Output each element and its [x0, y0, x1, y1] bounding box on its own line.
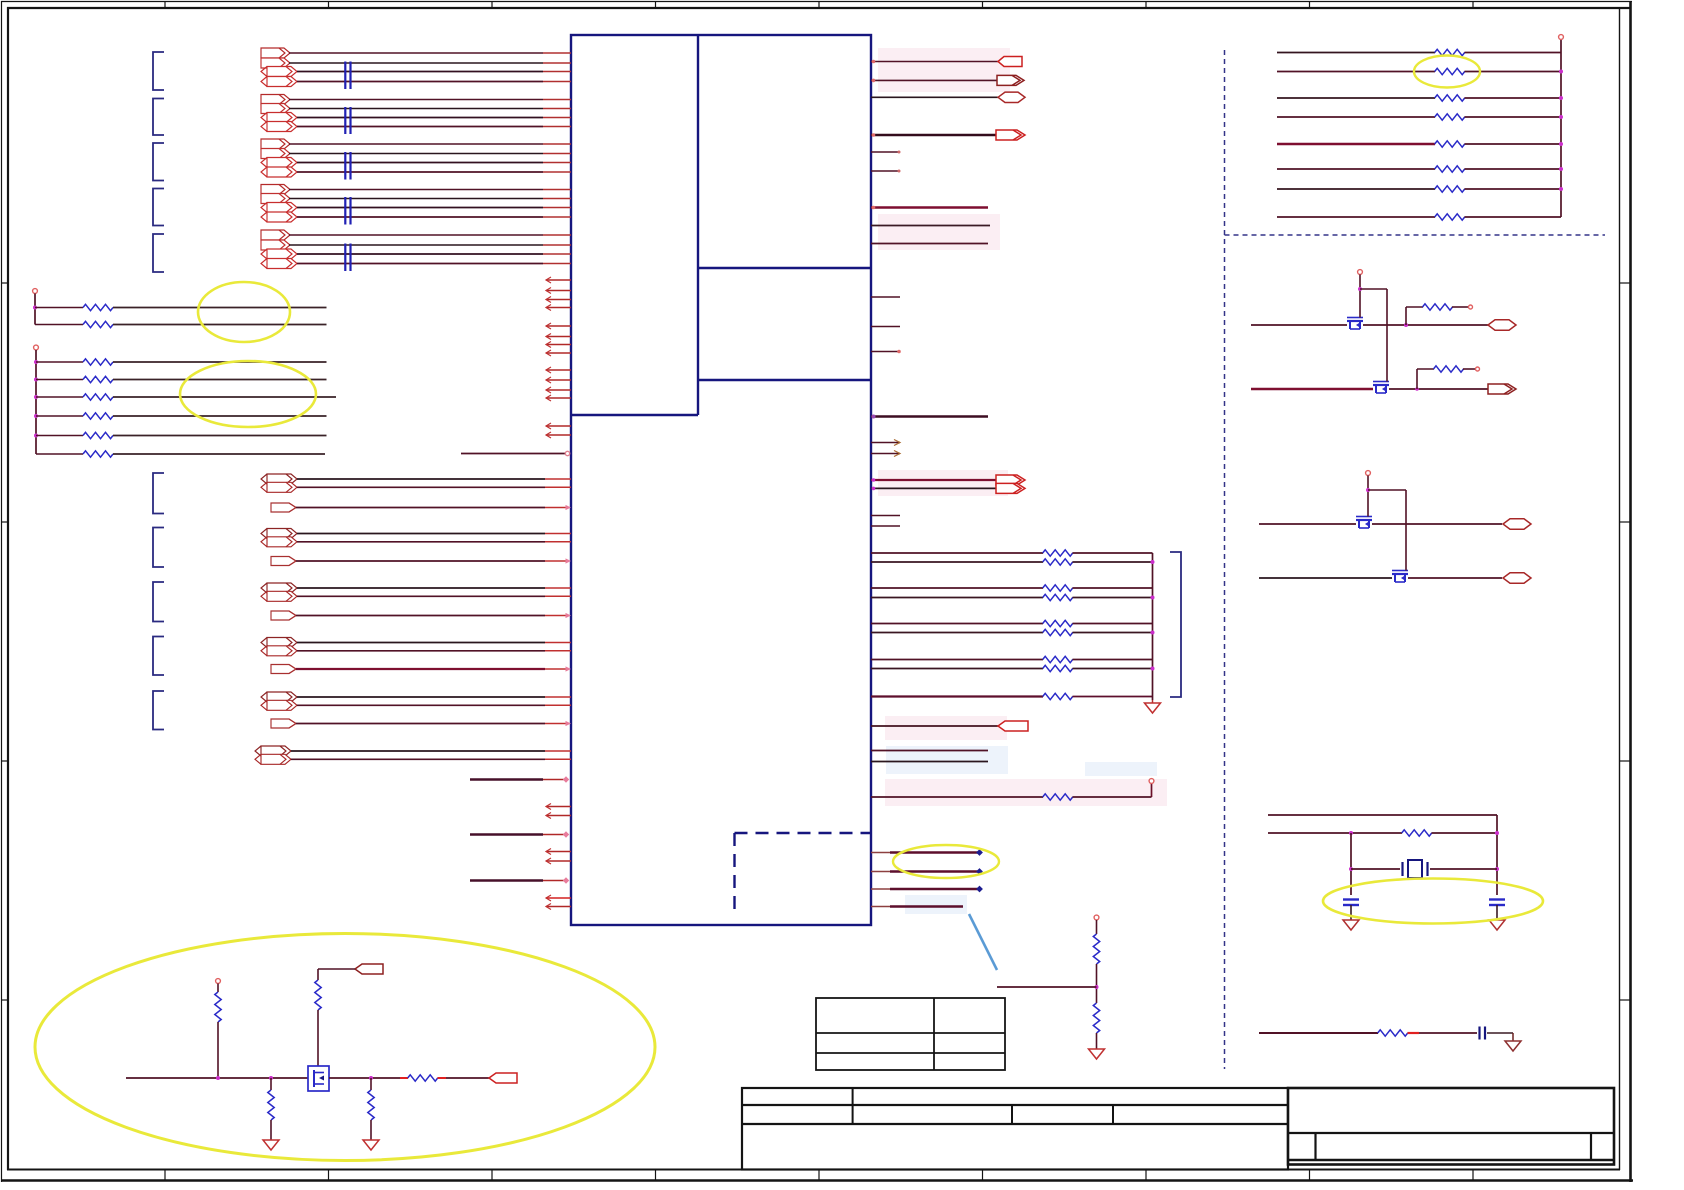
wire group1 net1 — [289, 52, 543, 54]
connector PL4a — [261, 638, 297, 648]
pin stub pair5 — [545, 697, 571, 705]
junction X1 — [1349, 831, 1353, 835]
capacitor CRC — [1480, 1027, 1486, 1040]
wire group4 net1 — [289, 189, 543, 191]
wire pair3 net1 — [297, 587, 545, 589]
pin dot net61 — [872, 60, 876, 64]
termination bus junctions — [1151, 560, 1155, 671]
wire B3 left — [36, 396, 83, 398]
wire group1 net2 — [289, 62, 543, 64]
highlight ellipse EE — [35, 934, 655, 1161]
terminal V1 — [1358, 270, 1363, 275]
port OUT3 — [998, 92, 1025, 102]
bracket group1 — [153, 52, 164, 90]
termination resistor RT6 — [1043, 629, 1073, 635]
wire TR3 left — [1277, 97, 1435, 99]
wire TR1 right — [1465, 52, 1562, 54]
wire TR6 left — [1277, 168, 1435, 170]
wire single2 — [296, 560, 545, 562]
wire term net6 left — [871, 632, 1043, 634]
wire group2 net2 — [289, 108, 543, 110]
bus B vertical — [35, 350, 37, 454]
transistor Q1 — [1347, 318, 1363, 330]
terminal M1 — [1469, 305, 1473, 309]
wire RQ4 bottom — [370, 1120, 372, 1140]
resistor RQ2 — [315, 980, 321, 1010]
wire term net2 left — [871, 561, 1043, 563]
wire RP1-RP2 — [1096, 964, 1098, 1003]
wire group5 net4 — [297, 263, 543, 265]
wire out net135 — [871, 134, 996, 137]
termination resistor RT7 — [1043, 656, 1073, 662]
bracket group4 — [153, 189, 164, 226]
pin dots pair — [872, 478, 876, 490]
wire RP2 down — [1096, 1033, 1098, 1049]
junction B3 — [34, 395, 38, 399]
terminal TTR — [1559, 35, 1564, 40]
terminal net797 — [1149, 779, 1154, 784]
highlight ellipse EA — [198, 282, 290, 342]
wire botleft3 — [470, 879, 543, 881]
wire pair5 net2 — [297, 704, 545, 706]
wire out net416 — [871, 415, 988, 417]
bracket group5 — [153, 234, 164, 272]
wire B3 right — [113, 396, 336, 398]
wire V1 down — [1359, 275, 1361, 317]
ground GX2 — [1489, 920, 1505, 930]
capacitor CX1 — [1343, 900, 1359, 921]
connector P13 — [261, 185, 290, 195]
wire term net1 right — [1073, 552, 1153, 554]
crystal Y1 — [1403, 860, 1428, 878]
wire Q5 main right — [329, 1077, 400, 1079]
transistor Q2 — [1373, 382, 1389, 394]
revision table — [816, 998, 1005, 1070]
wire pair2 net1 — [297, 533, 545, 535]
wire M4 in — [1259, 577, 1392, 579]
port OUT1 — [998, 57, 1022, 67]
coupling capacitors C1 C2 — [344, 62, 351, 90]
termination resistor RT3 — [1043, 585, 1073, 591]
pin stub pair6 — [545, 751, 571, 759]
connector PL6a — [255, 746, 291, 756]
wire term net5 left — [871, 623, 1043, 625]
wire out pair482 — [871, 479, 996, 481]
pin stub single2 — [545, 560, 566, 562]
resistor RR6 — [1435, 166, 1465, 172]
resistor RA2 — [83, 321, 113, 327]
wire TR2 right — [1465, 71, 1562, 73]
wire B2 right — [113, 379, 327, 381]
wire out net225 — [871, 225, 990, 227]
strap diamond 1 — [976, 849, 983, 856]
wire RM1 out — [1452, 306, 1468, 308]
bracket group3 — [153, 143, 164, 181]
strap wire 1 — [871, 852, 979, 854]
pin arrow single4 — [566, 666, 572, 671]
wire B4 right — [113, 415, 327, 417]
bracket termination — [1170, 552, 1181, 697]
termination resistor RT8 — [1043, 665, 1073, 671]
connector P7 — [261, 113, 297, 123]
pin stub single1 — [545, 507, 566, 509]
junction M1 — [1404, 323, 1408, 327]
wire X2 left — [1268, 832, 1402, 834]
wire B6 left — [36, 453, 83, 455]
connector PL1a — [261, 474, 297, 484]
pin dot net135 — [872, 133, 876, 137]
connector PL3a — [261, 583, 297, 593]
connector PS4 — [271, 665, 296, 674]
wire RC mid — [1419, 1032, 1477, 1034]
wire term net3 left — [871, 587, 1043, 589]
wire X2 right — [1432, 832, 1498, 834]
port OUTP1 — [996, 475, 1025, 485]
dashed partition vertical — [1224, 50, 1226, 1069]
wire out net80 — [871, 79, 998, 81]
highlight ellipse EC — [893, 845, 999, 878]
wire B2 left — [36, 379, 83, 381]
strap wire 4 — [871, 906, 963, 908]
wire pair4 net2 — [297, 650, 545, 652]
connector PL6b — [255, 754, 291, 764]
connector P19 — [261, 249, 297, 259]
wire RC red lead — [1408, 1032, 1420, 1034]
wire to PQ2 — [446, 1077, 489, 1079]
wire RQ5 red lead1 — [400, 1077, 408, 1079]
resistor RQ4 — [368, 1090, 374, 1120]
connector P20 — [261, 259, 297, 269]
terminal M2 — [1476, 367, 1480, 371]
wire group5 net2 — [289, 244, 543, 246]
resistor RR5 — [1435, 141, 1465, 147]
wire RC out — [1487, 1032, 1513, 1034]
junction M2 — [1415, 387, 1419, 391]
termination resistor RT4 — [1043, 594, 1073, 600]
wire TR5 left — [1277, 143, 1435, 145]
wire X left vert — [1350, 833, 1352, 895]
ground GP — [1089, 1049, 1105, 1059]
wire V2 down — [1367, 476, 1369, 516]
junction P — [1095, 985, 1099, 989]
junction Q1b — [269, 1076, 273, 1080]
port OUT2 — [997, 75, 1024, 85]
pin stub pair1 — [545, 479, 571, 487]
connector PL4b — [261, 646, 297, 656]
terminal TQ — [216, 979, 221, 984]
pin stub pair4 — [545, 643, 571, 651]
ground GQ1 — [263, 1140, 279, 1150]
strap wire 2 — [871, 871, 979, 873]
resistor RB4 — [83, 413, 113, 419]
wire single4 — [296, 668, 545, 670]
connector P2 — [261, 58, 290, 68]
connector P12 — [261, 167, 297, 177]
pin stub pair3 — [545, 588, 571, 596]
junction V2 — [1366, 488, 1370, 492]
wire TR6 right — [1465, 168, 1562, 170]
resistor RR7 — [1435, 186, 1465, 192]
termination resistor RT1 — [1043, 550, 1073, 556]
strap wire 3 — [871, 888, 979, 890]
resistor RB6 — [83, 451, 113, 457]
connector P5 — [261, 95, 290, 105]
pin stub single4 — [545, 668, 566, 670]
pin dot botleft1 — [563, 776, 569, 782]
connector PS5 — [271, 719, 296, 728]
connector PL3b — [261, 591, 297, 601]
wire term net4 right — [1073, 597, 1153, 599]
coupling capacitors C9 C10 — [344, 244, 351, 272]
branch M1 up — [1406, 307, 1423, 325]
IC U1 outline — [571, 35, 871, 925]
coupling capacitors C3 C4 — [344, 107, 351, 134]
termination resistor RT5 — [1043, 620, 1073, 626]
wire B1 left — [36, 361, 83, 363]
resistor RQ3 — [268, 1090, 274, 1120]
U1 right stubs 515/526 — [871, 516, 900, 527]
resistor RR8 — [1435, 214, 1465, 220]
wire B6 right — [113, 453, 325, 455]
resistor RR1 — [1435, 49, 1465, 55]
connector PL5a — [261, 692, 297, 702]
connector PL2a — [261, 529, 297, 539]
port LS1 — [1488, 320, 1516, 330]
wire group4 net4 — [297, 216, 543, 218]
resistor RQ5 — [408, 1075, 438, 1081]
wire RQ3 top — [270, 1078, 272, 1090]
U1 right stubs 297-351 — [871, 297, 901, 353]
port LS4 — [1503, 573, 1531, 583]
connector P16 — [261, 212, 297, 222]
junction B4 — [34, 414, 38, 418]
title block left section — [742, 1088, 1614, 1170]
wire group5 net3 — [297, 253, 543, 255]
wire TR3 right — [1465, 97, 1562, 99]
pin arrow single1 — [566, 505, 572, 510]
net stub terminal TA — [33, 289, 38, 294]
pin dot net80 — [872, 79, 876, 83]
wire RQ4 top — [370, 1078, 372, 1090]
bracket lower5 — [153, 691, 164, 730]
junction A1 — [33, 306, 37, 310]
connector PL2b — [261, 537, 297, 547]
wire RQ1 top — [217, 984, 219, 993]
connector P18 — [261, 240, 290, 250]
resistor RB1 — [83, 359, 113, 365]
terminal V2 — [1366, 471, 1371, 476]
connector P1 — [261, 48, 290, 58]
resistor RQ1 — [215, 992, 221, 1022]
wire B5 left — [36, 435, 83, 437]
wire TR8 left — [1277, 216, 1435, 218]
transistor Q3 — [1356, 517, 1372, 529]
pin stub botleft2 — [543, 834, 566, 836]
wire Q5 main left — [126, 1077, 308, 1079]
wire B1 right — [113, 361, 327, 363]
capacitor CX2 — [1489, 900, 1505, 921]
resistor RR4 — [1435, 114, 1465, 120]
wire out net797 left — [871, 796, 1043, 798]
wire V1 branch — [1360, 289, 1387, 380]
bracket lower1 — [153, 473, 164, 514]
callout line — [969, 914, 997, 970]
termination bus vertical — [1152, 553, 1154, 700]
connector PL5b — [261, 700, 297, 710]
port OUT4 — [996, 130, 1025, 140]
title block right section — [1288, 1088, 1614, 1165]
wire RC in — [1259, 1032, 1378, 1034]
terminal TP — [1094, 915, 1099, 920]
connector P9 — [261, 139, 290, 149]
highlight ellipse EX — [1323, 879, 1543, 924]
wire pair2 net2 — [297, 541, 545, 543]
ground GT1 — [1145, 700, 1161, 713]
wire B4 left — [36, 415, 83, 417]
wire M1 out — [1363, 324, 1489, 326]
wire out net797 right — [1073, 796, 1152, 798]
wire group3 net4 — [297, 171, 543, 173]
wire term net1 left — [871, 552, 1043, 554]
wire pair3 net2 — [297, 595, 545, 597]
pin arrow single3 — [566, 613, 572, 618]
wire pair4 net1 — [297, 642, 545, 644]
pin dot net207 — [872, 206, 876, 210]
port LS3 — [1503, 519, 1531, 529]
wire TR4 left — [1277, 116, 1435, 118]
connector P10 — [261, 149, 290, 159]
wire out net750 — [871, 750, 988, 752]
junction Q1a — [216, 1076, 220, 1080]
resistor RRC — [1378, 1030, 1408, 1036]
wire term net8 left — [871, 668, 1043, 670]
wire M2 in — [1251, 388, 1373, 390]
wire single3 — [296, 615, 545, 617]
wire TR7 right — [1465, 188, 1562, 190]
resistor RB2 — [83, 376, 113, 382]
wire RQ2 bottom — [317, 1010, 319, 1066]
wire TR7 left — [1277, 188, 1435, 190]
strap diamond 3 — [976, 886, 983, 893]
wire botleft1 — [470, 778, 543, 780]
ground GX1 — [1343, 920, 1359, 930]
wire V2 branch — [1368, 490, 1406, 569]
port PQ2 — [489, 1073, 517, 1083]
bracket lower3 — [153, 582, 164, 622]
strap diamond 2 — [976, 868, 983, 875]
pin dot net416 — [872, 415, 876, 419]
wire group1 net3 — [297, 71, 543, 73]
wire out net61 — [871, 61, 998, 63]
ground GQ2 — [363, 1140, 379, 1150]
wire A1 right — [113, 307, 327, 309]
wire group2 net1 — [289, 99, 543, 101]
terminal net453 — [565, 451, 569, 455]
wire group3 net1 — [289, 143, 543, 145]
wire TR2 left — [1277, 71, 1435, 73]
junction B2 — [34, 378, 38, 382]
connector P6 — [261, 104, 290, 114]
dashed partition horizontal — [1225, 234, 1606, 236]
connector PS3 — [271, 611, 296, 620]
top-right junctions — [1559, 70, 1563, 192]
wire A2 right — [113, 324, 327, 326]
selection highlight bands — [878, 48, 1167, 914]
U1 bottom-left stub pins — [546, 804, 571, 910]
wire M3 out — [1372, 523, 1502, 525]
resistor RR2 — [1435, 68, 1465, 74]
resistor RB3 — [83, 394, 113, 400]
connector P17 — [261, 230, 290, 240]
wire term net7 left — [871, 659, 1043, 661]
port LS2 — [1488, 384, 1516, 394]
wire group4 net3 — [297, 207, 543, 209]
highlight ellipse ED — [1414, 56, 1480, 88]
branch M2 up — [1417, 369, 1434, 389]
pin stubs group2 — [543, 100, 571, 127]
pin dot botleft3 — [563, 877, 569, 883]
transistor Q5 — [308, 1066, 329, 1091]
U1 right stubs 444/453 — [871, 440, 900, 457]
junction X4 — [1495, 867, 1499, 871]
junction B5 — [34, 434, 38, 438]
wire RM2 out — [1463, 368, 1475, 370]
wire out net761 — [871, 761, 988, 763]
transistor Q4 — [1392, 571, 1408, 583]
termination resistor RT9 — [1043, 693, 1073, 699]
top-right bus vertical — [1560, 40, 1562, 218]
wire P left — [997, 986, 1097, 988]
pin stubs group3 — [543, 144, 571, 172]
pin stubs group5 — [543, 235, 571, 264]
junction B1 — [34, 360, 38, 364]
connector PS2 — [271, 557, 296, 566]
wire M1 in — [1251, 324, 1347, 326]
pin arrow single5 — [566, 721, 572, 726]
net stub terminal TB — [34, 345, 39, 350]
connector PS1 — [271, 503, 296, 512]
resistor RP1 — [1093, 934, 1099, 964]
bracket group2 — [153, 99, 164, 136]
wire TR4 right — [1465, 116, 1562, 118]
dashed option box on U1 — [735, 833, 872, 917]
wire term net5 right — [1073, 623, 1153, 625]
wire group4 net2 — [289, 198, 543, 200]
wire pair1 net2 — [297, 486, 545, 488]
connector P15 — [261, 203, 297, 213]
wire group2 net3 — [297, 117, 543, 119]
wire TR8 right — [1465, 216, 1562, 218]
wire X1 top — [1268, 815, 1497, 895]
wire pair5 net1 — [297, 696, 545, 698]
wire pair6 net2 — [291, 758, 545, 760]
pin arrow single2 — [566, 558, 572, 563]
U1 right stubs 152/171 — [871, 151, 901, 173]
wire term net4 left — [871, 597, 1043, 599]
wire A2 left — [35, 324, 83, 326]
resistor RP2 — [1093, 1003, 1099, 1033]
wire out net207 — [871, 206, 988, 208]
ground GRC — [1505, 1033, 1521, 1051]
wire RQ1 bottom — [217, 1022, 219, 1078]
connector PL1b — [261, 482, 297, 492]
wire group3 net2 — [289, 153, 543, 155]
port OUT5 — [998, 721, 1028, 731]
wire term net8 right — [1073, 668, 1153, 670]
pin stub botleft1 — [543, 779, 566, 781]
wire term net2 right — [1073, 561, 1153, 563]
pin stub single3 — [545, 615, 566, 617]
